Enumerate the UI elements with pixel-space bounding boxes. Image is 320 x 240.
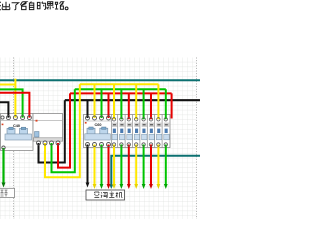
wire: neutral bus N (black) to right edge <box>65 99 200 101</box>
wire: red U-loop from M1 t4 to red bus <box>58 93 70 167</box>
DB1 terminal row line <box>84 120 112 122</box>
page-boundary dotted line right <box>195 58 197 220</box>
DB2 panel box <box>84 115 171 148</box>
drawing canvas grid <box>0 58 197 220</box>
自 <box>29 2 33 10</box>
terminals Q4-Q11 top <box>112 118 115 121</box>
Q3 toggle handles <box>87 128 95 134</box>
svg-text:C40: C40 <box>13 124 20 128</box>
breaker panel DB2 (middle box) <box>84 115 171 148</box>
breaker panel DB1 (left box) <box>1 114 63 152</box>
partial char at left edge <box>0 2 1 10</box>
arrowheads: branch breaker output drops <box>112 184 168 189</box>
路 <box>55 2 64 9</box>
wire: green U-loop from M1 t3 to green bus <box>52 89 75 172</box>
思 <box>47 2 53 10</box>
wire: incoming phase B (green) to Q1 t3 <box>0 89 23 117</box>
page-boundary dotted line left <box>13 58 15 220</box>
wire: phase bus B (green) <box>75 88 166 90</box>
M1 bottom terminal rail <box>34 138 63 141</box>
wire: main supply line L (teal, full width) <box>0 79 200 81</box>
terminals M1 bottom row <box>37 141 41 145</box>
各 <box>20 2 26 10</box>
Q1 red trip indicator <box>2 124 4 126</box>
terminals Q4-Q11 bottom <box>112 143 115 146</box>
terminal Q1 bottom-left <box>2 146 5 149</box>
Q1 toggle handles <box>7 128 15 134</box>
。 <box>65 7 68 10</box>
的 <box>37 2 45 10</box>
wire: incoming phase C (red) to Q1 t4 <box>0 93 29 118</box>
wire: black U-loop from M1 t1 to neutral bus <box>39 100 65 162</box>
branch breakers Q4-Q11 rocker bars <box>112 134 169 140</box>
wire: teal feeder from right edge down to AC unit box <box>111 156 200 185</box>
svg-text:C60: C60 <box>95 123 102 127</box>
Q1 lower divider line <box>1 146 34 148</box>
wire: branch breaker output drops Q4-Q11 <box>114 145 166 185</box>
wire: phase bus A (yellow) <box>80 83 159 85</box>
branch breakers Q4-Q11 dividers <box>112 115 163 148</box>
出 <box>2 2 10 10</box>
terminals: rings overdrawn on wires <box>1 116 111 150</box>
调 <box>101 192 107 197</box>
了 <box>12 3 19 10</box>
terminals Q3 bottom row <box>86 143 90 147</box>
主 <box>109 192 114 198</box>
wire: yellow U-loop from M1 t2 to yellow bus <box>45 84 80 177</box>
wire: yellow drops to Q3 t2, Q4, Q7, Q10 <box>95 84 159 119</box>
wire: phase bus C (red) <box>70 92 172 94</box>
arrowheads: Q3 output drops <box>86 183 111 190</box>
wire: red drops to Q3 t4, Q6, Q9 and end stub <box>109 93 172 119</box>
meter/RCD M1 body (right module of DB1) <box>33 114 63 142</box>
空 <box>94 192 99 198</box>
wire: Q3 output drops (black/yellow/green/red) <box>88 145 109 185</box>
wire: green drops to Q3 t3, Q5, Q8, Q11 <box>102 89 166 119</box>
M1 indicator + blue latch <box>36 120 38 122</box>
wire: incoming phase A (yellow) to Q1 t2 <box>0 79 15 118</box>
load box: left (earth target, 2-line label) <box>0 188 15 197</box>
load box: air-conditioner main unit (空调主机) <box>86 190 125 200</box>
wire: incoming neutral N (black) to Q1 t1 <box>0 102 8 117</box>
wire: black drop to Q3 t1 <box>87 100 89 118</box>
wire: green earth lead from Q1 to load box with arrow <box>2 148 4 183</box>
Q3 red trip indicator <box>85 122 87 124</box>
terminals Q3 top row <box>86 116 90 120</box>
terminals Q1 top row <box>1 116 4 119</box>
branch breakers Q4-Q11 toggles <box>113 129 168 133</box>
branch breakers Q4-Q11 label bands <box>112 123 169 127</box>
机 <box>116 192 123 198</box>
title text (CJK squiggle glyphs) <box>0 2 68 10</box>
DB1 terminal row line <box>1 119 63 121</box>
breaker Q1 body (C40 RCBO, left module of DB1) <box>1 114 34 151</box>
